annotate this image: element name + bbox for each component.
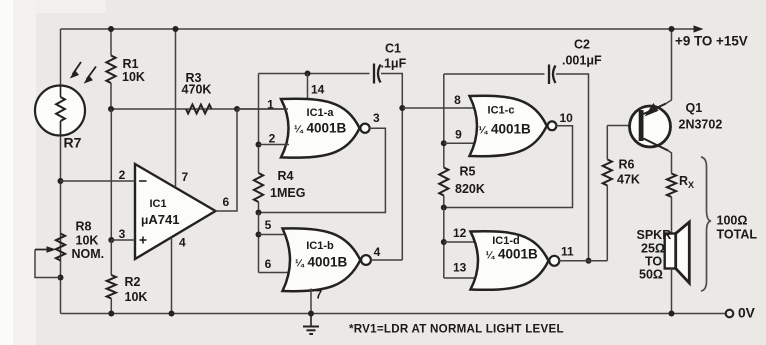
- svg-text:9: 9: [455, 128, 462, 142]
- node 0V terminal: [726, 306, 756, 321]
- svg-text:14: 14: [311, 83, 325, 97]
- svg-text:R6: R6: [619, 158, 635, 172]
- wire bottom 0V rail: [61, 313, 726, 315]
- svg-text:470K: 470K: [182, 83, 212, 97]
- svg-text:0V: 0V: [738, 306, 756, 321]
- wire gate-d pin12 input: [444, 226, 478, 242]
- svg-text:4: 4: [374, 245, 381, 259]
- svg-text:12: 12: [453, 226, 467, 240]
- wire gate-c pin9 input: [444, 128, 478, 144]
- svg-text:2N3702: 2N3702: [679, 118, 723, 132]
- wire Q1 emitter to +V: [666, 26, 675, 104]
- svg-text:50Ω: 50Ω: [639, 268, 663, 282]
- resistor Rx: [667, 174, 694, 198]
- wire gate-a pin1 input: [237, 98, 288, 112]
- svg-text:¼ 4001B: ¼ 4001B: [294, 121, 347, 136]
- node +9 TO +15V supply: [672, 25, 748, 48]
- wire gate-d pin13 input: [444, 261, 478, 279]
- svg-text:*RV1=LDR AT NORMAL LIGHT LEVEL: *RV1=LDR AT NORMAL LIGHT LEVEL: [349, 322, 564, 335]
- svg-text:820K: 820K: [455, 182, 485, 196]
- brace 100 ohm total: [701, 157, 757, 291]
- svg-text:10: 10: [560, 111, 574, 125]
- svg-text:IC1-d: IC1-d: [492, 235, 520, 247]
- svg-text:R2: R2: [125, 275, 141, 289]
- svg-text:Q1: Q1: [686, 101, 703, 115]
- svg-text:25Ω: 25Ω: [641, 242, 665, 256]
- svg-text:.001μF: .001μF: [562, 53, 602, 67]
- svg-text:R4: R4: [278, 169, 294, 183]
- wire C2 right column: [556, 74, 592, 264]
- svg-text:IC1: IC1: [149, 198, 166, 210]
- svg-text:IC1-c: IC1-c: [488, 105, 515, 117]
- svg-text:μA741: μA741: [141, 212, 179, 227]
- svg-text:IC1-a: IC1-a: [307, 107, 335, 119]
- wire op-amp pin4 to 0V: [169, 236, 187, 317]
- wire gate-c pin8 input: [402, 93, 476, 108]
- capacitor C2: [549, 38, 602, 85]
- svg-text:47K: 47K: [617, 173, 640, 187]
- svg-text:1: 1: [267, 98, 274, 112]
- wire gate-d output 11: [559, 245, 607, 261]
- svg-text:SPKR: SPKR: [637, 228, 672, 242]
- svg-text:11: 11: [561, 245, 574, 259]
- gate IC1-b: [283, 228, 371, 291]
- wire feedback column C1/R4 to pin2: [256, 74, 262, 174]
- wire C2 top line: [444, 73, 545, 75]
- wire gate-a pin2 input: [259, 132, 290, 146]
- wire gate-a output 3 loop: [259, 111, 386, 213]
- svg-text:13: 13: [453, 261, 467, 275]
- svg-text:6: 6: [265, 257, 272, 271]
- svg-text:8: 8: [454, 93, 461, 107]
- wire gate-d input column: [441, 208, 447, 279]
- note RV1 text: [349, 322, 564, 335]
- svg-text:100Ω: 100Ω: [717, 214, 748, 228]
- svg-text:C1: C1: [385, 42, 401, 56]
- wire gate-a pin14 drop: [308, 74, 325, 102]
- wire C1 right column: [381, 74, 405, 261]
- resistor R6: [603, 126, 640, 261]
- wire gate-b input column: [256, 213, 262, 273]
- wire gate-b pin7 to 0V: [308, 288, 323, 317]
- gate IC1-a: [281, 99, 370, 158]
- svg-text:3: 3: [119, 227, 126, 241]
- wire pin14/C1 top line: [259, 71, 370, 77]
- wire op-amp pin3 input: [111, 227, 135, 241]
- svg-text:3: 3: [373, 111, 380, 125]
- gate IC1-c: [470, 96, 557, 157]
- speaker SPKR: [637, 222, 690, 283]
- wire gate-c output 10 loop: [444, 111, 573, 208]
- wire Q1 base line: [607, 125, 638, 127]
- wire gate-b pin5 input: [259, 218, 295, 235]
- svg-text:R7: R7: [64, 135, 82, 151]
- svg-text:.1μF: .1μF: [381, 57, 407, 71]
- potentiometer R8: [35, 220, 104, 278]
- svg-text:R5: R5: [460, 165, 476, 179]
- capacitor C1: [374, 42, 407, 84]
- svg-text:10K: 10K: [76, 234, 99, 248]
- photoresistor R7 (LDR): [35, 62, 96, 151]
- svg-text:R8: R8: [76, 220, 92, 234]
- svg-text:C2: C2: [574, 38, 590, 52]
- svg-text:5: 5: [265, 218, 272, 232]
- resistor R2: [107, 240, 148, 317]
- wire left column from +V to LDR: [60, 29, 62, 86]
- svg-text:IC1-b: IC1-b: [306, 240, 334, 252]
- resistor R1: [106, 26, 145, 109]
- svg-text:6: 6: [223, 195, 230, 209]
- wire Q1 collector to Rx: [668, 151, 672, 174]
- svg-text:+9 TO +15V: +9 TO +15V: [675, 34, 748, 49]
- wire C2 left column: [441, 74, 447, 168]
- svg-text:4: 4: [179, 236, 186, 250]
- resistor R3: [182, 71, 212, 113]
- wire +V top rail: [61, 28, 672, 30]
- svg-text:¼ 4001B: ¼ 4001B: [295, 255, 348, 270]
- svg-text:NOM.: NOM.: [72, 247, 105, 261]
- svg-text:TOTAL: TOTAL: [717, 228, 758, 242]
- resistor R5: [439, 165, 485, 211]
- svg-text:R1: R1: [123, 57, 139, 71]
- wire left column LDR to rail: [58, 136, 64, 314]
- svg-text:¼ 4001B: ¼ 4001B: [479, 122, 532, 137]
- wire Rx to speaker: [671, 197, 673, 234]
- wire op-amp pin7 to +V: [173, 26, 189, 187]
- wire gate-b output 4: [371, 245, 402, 260]
- svg-text:7: 7: [182, 170, 189, 184]
- svg-text:1MEG: 1MEG: [270, 186, 305, 200]
- wire op-amp output 6: [216, 109, 238, 211]
- svg-text:2: 2: [269, 132, 276, 146]
- op-amp IC1 uA741: [135, 164, 216, 259]
- svg-text:7: 7: [316, 288, 323, 302]
- svg-text:TO: TO: [645, 255, 662, 269]
- wire divider column to pin3: [108, 109, 114, 243]
- svg-text:¼ 4001B: ¼ 4001B: [486, 247, 539, 262]
- svg-text:10K: 10K: [125, 290, 148, 304]
- svg-text:10K: 10K: [122, 70, 145, 84]
- wire speaker to 0V rail: [669, 269, 675, 317]
- wire node line R1-R3: [108, 106, 288, 112]
- wire gate-b pin6 input: [259, 257, 295, 273]
- ground symbol: [303, 314, 319, 335]
- wire op-amp pin2 input: [61, 168, 136, 182]
- gate IC1-d: [471, 231, 560, 290]
- transistor Q1 2N3702: [630, 101, 723, 151]
- resistor R4: [254, 169, 306, 216]
- svg-text:2: 2: [119, 168, 126, 182]
